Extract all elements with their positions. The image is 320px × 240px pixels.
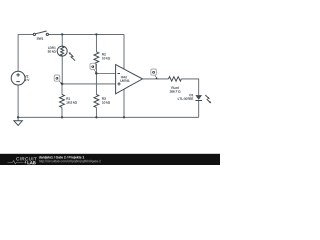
resistor R1 (60, 95, 77, 108)
node a marker (54, 75, 62, 84)
wire R3 bottom lead (95, 108, 97, 118)
node b junction (95, 72, 97, 74)
wire top rail left segment (18, 33, 33, 35)
wire R2 bottom to node b (95, 64, 97, 74)
CircuitLab logo bolt (24, 161, 26, 165)
wire op-amp V- drop (123, 89, 125, 117)
wire node a to R4 (61, 84, 63, 95)
watermark url text (39, 160, 101, 163)
ground (14, 117, 22, 125)
wire op-amp V+ drop (123, 34, 125, 69)
wire node b to op-amp minus input (96, 73, 115, 75)
junction bottom rail op-amp V- (123, 116, 125, 118)
resistor R2 (94, 52, 110, 65)
watermark title text (39, 156, 84, 159)
voltage source V2 (11, 71, 29, 85)
CircuitLab logo LAB (27, 161, 35, 164)
junction top rail LDR (61, 33, 63, 35)
wire node a to op-amp plus input (62, 83, 115, 85)
photoresistor LDR1 (48, 46, 75, 61)
CircuitLab logo CIRCUIT (16, 157, 36, 160)
resistor R3 (94, 95, 110, 108)
wire LED bottom lead (198, 100, 200, 117)
junction bottom rail ground (17, 116, 19, 118)
wire top rail right segment (48, 33, 124, 35)
LED D1 (178, 94, 211, 103)
CircuitLab logo waveform (8, 161, 24, 164)
crossing blob at plus-wire over R2R3 line (96, 83, 98, 85)
switch SW1 (33, 31, 48, 40)
wire LDR1 top lead (61, 34, 63, 46)
wire R2 top lead (95, 34, 97, 51)
node a junction (61, 83, 63, 85)
junction bottom rail R4 (61, 116, 63, 118)
wire op-amp output to RLed (143, 78, 169, 80)
wire R4 bottom lead (61, 108, 63, 118)
junction top rail R2 (95, 33, 97, 35)
wire left rail bottom (17, 85, 19, 117)
wire RLed to LED top (182, 79, 199, 95)
wire LDR1 bottom lead to node a (61, 56, 63, 84)
wire bottom rail (18, 116, 199, 118)
op-amp OA2 LM741 (116, 65, 143, 94)
node out marker (151, 69, 158, 79)
wire node b down to R3 (95, 74, 97, 95)
node b marker (90, 63, 97, 74)
wire left rail top (17, 34, 19, 71)
resistor RLed (169, 77, 182, 93)
watermark bar (0, 154, 220, 165)
junction bottom rail R3 (95, 116, 97, 118)
